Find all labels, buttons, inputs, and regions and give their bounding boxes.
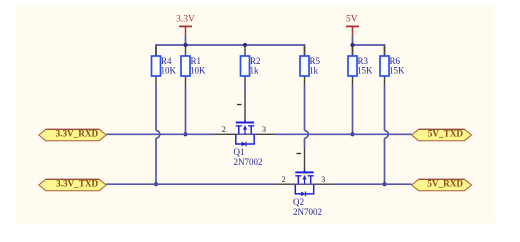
wire 5V bus	[353, 45, 385, 56]
node R3/5V_TXD junction	[350, 132, 354, 136]
svg-text:R5: R5	[310, 56, 321, 66]
svg-text:3: 3	[262, 125, 266, 134]
wire 5V symbol to bus	[352, 36, 354, 45]
svg-text:3: 3	[321, 175, 325, 184]
node R1/RXD junction	[183, 132, 187, 136]
node R6/5V_RXD junction	[382, 182, 386, 186]
svg-text:R3: R3	[358, 56, 369, 66]
svg-text:3.3V_RXD: 3.3V_RXD	[56, 128, 99, 138]
wire R2 bottom to Q1 gate	[244, 84, 246, 94]
resistor R2	[241, 46, 261, 85]
port 5V_TXD	[412, 128, 472, 140]
Q1 gate pin (pin 1)	[244, 94, 246, 122]
Q2 gate pin (pin 1)	[304, 147, 306, 171]
wire R1 bottom to RXD line	[185, 86, 187, 134]
Q1 pin 3	[254, 133, 274, 135]
Q1 pin 2	[216, 133, 236, 135]
svg-text:1k: 1k	[309, 66, 319, 76]
wire 3.3V_RXD to Q1 pin2	[106, 133, 215, 135]
svg-text:3.3V_TXD: 3.3V_TXD	[56, 178, 98, 188]
wire Q2 pin3 to 5V_RXD port	[334, 183, 412, 185]
node 5V/R3 junction	[350, 43, 354, 47]
power port 3.3V	[176, 15, 195, 36]
transistor Q2 2N7002	[293, 170, 322, 216]
svg-text:1k: 1k	[250, 66, 260, 76]
resistor R1	[181, 46, 206, 87]
svg-text:15K: 15K	[357, 66, 373, 76]
resistor R3	[348, 46, 373, 87]
svg-text:2N7002: 2N7002	[234, 157, 263, 167]
wire R4 bottom to TXD line (hop over RXD line)	[156, 86, 160, 184]
svg-text:2N7002: 2N7002	[293, 207, 322, 217]
power port 5V	[346, 15, 359, 36]
svg-text:5V: 5V	[346, 15, 358, 25]
svg-text:Q2: Q2	[293, 197, 304, 207]
svg-text:R2: R2	[250, 56, 261, 66]
resistor R4	[152, 46, 177, 87]
svg-text:10K: 10K	[190, 66, 206, 76]
node R4/TXD junction	[154, 182, 158, 186]
resistor R5	[300, 46, 321, 87]
svg-text:R1: R1	[191, 56, 202, 66]
Q2 pin 1 number	[297, 153, 302, 155]
svg-text:2: 2	[282, 175, 286, 184]
svg-text:5V_RXD: 5V_RXD	[427, 178, 463, 188]
svg-text:3.3V: 3.3V	[176, 15, 195, 25]
wire 3.3V bus	[156, 45, 305, 56]
wire R6 bottom to 5V_RXD line (hop over 5V_TXD line)	[385, 86, 389, 184]
wire R5 bottom to Q2 gate (hop over RXD line)	[305, 86, 309, 147]
resistor R6	[380, 46, 405, 87]
svg-text:10K: 10K	[161, 66, 177, 76]
wire R3 bottom to 5V_TXD line	[352, 86, 354, 134]
svg-text:Q1: Q1	[234, 147, 245, 157]
port 3.3V_RXD	[39, 128, 106, 140]
wire 3.3V symbol to bus	[185, 36, 187, 45]
svg-text:5V_TXD: 5V_TXD	[428, 128, 464, 138]
Q1 pin 1 number	[237, 104, 242, 106]
port 3.3V_TXD	[39, 178, 106, 190]
node 3.3V/R1 junction	[183, 43, 187, 47]
wire 3.3V_TXD to Q2 pin2	[106, 183, 275, 185]
port 5V_RXD	[412, 178, 472, 190]
wire Q1 pin3 to 5V_TXD port	[275, 133, 412, 135]
Q2 pin 3	[314, 183, 334, 185]
svg-text:15K: 15K	[389, 66, 405, 76]
svg-text:2: 2	[222, 125, 226, 134]
svg-text:R4: R4	[161, 56, 172, 66]
node 3.3V/R2 junction	[243, 43, 247, 47]
transistor Q1 2N7002	[234, 121, 263, 167]
Q2 pin 2	[275, 183, 295, 185]
svg-text:R6: R6	[390, 56, 401, 66]
